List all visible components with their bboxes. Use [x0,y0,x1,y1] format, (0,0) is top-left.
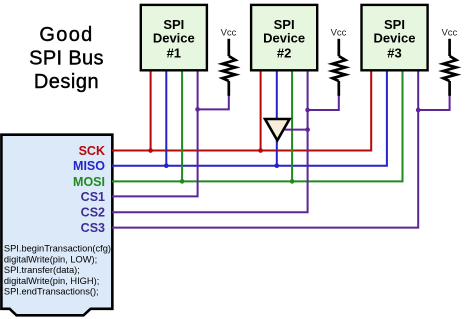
svg-text:CS2: CS2 [81,206,105,220]
wire MISO bus (blue) [112,71,387,166]
svg-text:Vcc: Vcc [221,27,237,38]
svg-text:#2: #2 [277,45,291,60]
microcontroller U1 (blue box with notch) [1,135,112,316]
node SCK-dev2 junction [258,148,263,153]
wire CS2 (purple) [112,71,308,213]
resistor R2 [332,39,345,96]
tri-state buffer U2 (on device 2 MISO) [265,119,290,140]
svg-text:CS3: CS3 [81,221,105,235]
node MOSI-dev1 junction [180,179,185,184]
svg-text:SPI.transfer(data);: SPI.transfer(data); [4,265,80,275]
svg-text:Good: Good [39,24,93,46]
node SCK-dev1 junction [148,148,153,153]
wire SCK bus (red) [112,71,371,151]
wire CS2 to pullup R2 [308,95,339,111]
resistor R3 [443,39,456,96]
svg-text:#1: #1 [167,45,181,60]
wire CS1 to pullup R1 [198,95,229,110]
node CS2-R2 junction [305,108,310,113]
svg-text:digitalWrite(pin, LOW);: digitalWrite(pin, LOW); [4,254,97,264]
svg-text:digitalWrite(pin, HIGH);: digitalWrite(pin, HIGH); [4,276,99,286]
SPI Device #3 box [362,5,428,70]
svg-text:SCK: SCK [79,144,105,158]
wire MOSI bus (green) [112,71,403,182]
SPI Device #1 box [141,5,207,70]
svg-text:#3: #3 [387,45,401,60]
node MOSI-dev2 junction [290,179,295,184]
svg-text:MOSI: MOSI [73,175,105,189]
wire CS2 to buffer enable [284,129,308,131]
wire SCK pin device 1 [150,71,152,151]
wire CS1 (purple) [112,71,198,197]
resistor R1 [222,39,235,96]
svg-text:SPI.endTransactions();: SPI.endTransactions(); [4,287,99,297]
svg-text:Vcc: Vcc [441,27,457,38]
svg-text:MISO: MISO [73,159,105,173]
svg-text:Device: Device [153,31,195,46]
node CS1-R1 junction [195,107,200,112]
svg-text:Design: Design [34,71,99,93]
wire SCK pin device 2 [260,71,262,151]
code text in microcontroller [4,244,114,297]
node CS2-enable junction [305,127,310,132]
svg-text:CS1: CS1 [81,190,105,204]
SPI Device #2 box [251,5,317,70]
wire MOSI pin device 2 [291,71,293,182]
title "Good SPI Bus Design" [29,24,104,93]
svg-text:SPI.beginTransaction(cfg);: SPI.beginTransaction(cfg); [4,244,114,254]
wire CS3 to pullup R3 [418,95,449,111]
wire CS3 (purple) [112,71,418,228]
svg-text:SPI Bus: SPI Bus [29,47,104,69]
wire MOSI pin device 1 [181,71,183,182]
node MISO-dev2 junction [274,163,279,168]
svg-text:Device: Device [263,31,305,46]
node MISO-dev1 junction [164,163,169,168]
wire MISO pin device 1 [165,71,167,166]
wire MISO pin device 2 (through buffer) [276,71,278,166]
svg-text:Vcc: Vcc [331,27,347,38]
svg-text:Device: Device [374,31,416,46]
node CS3-R3 junction [416,108,421,113]
